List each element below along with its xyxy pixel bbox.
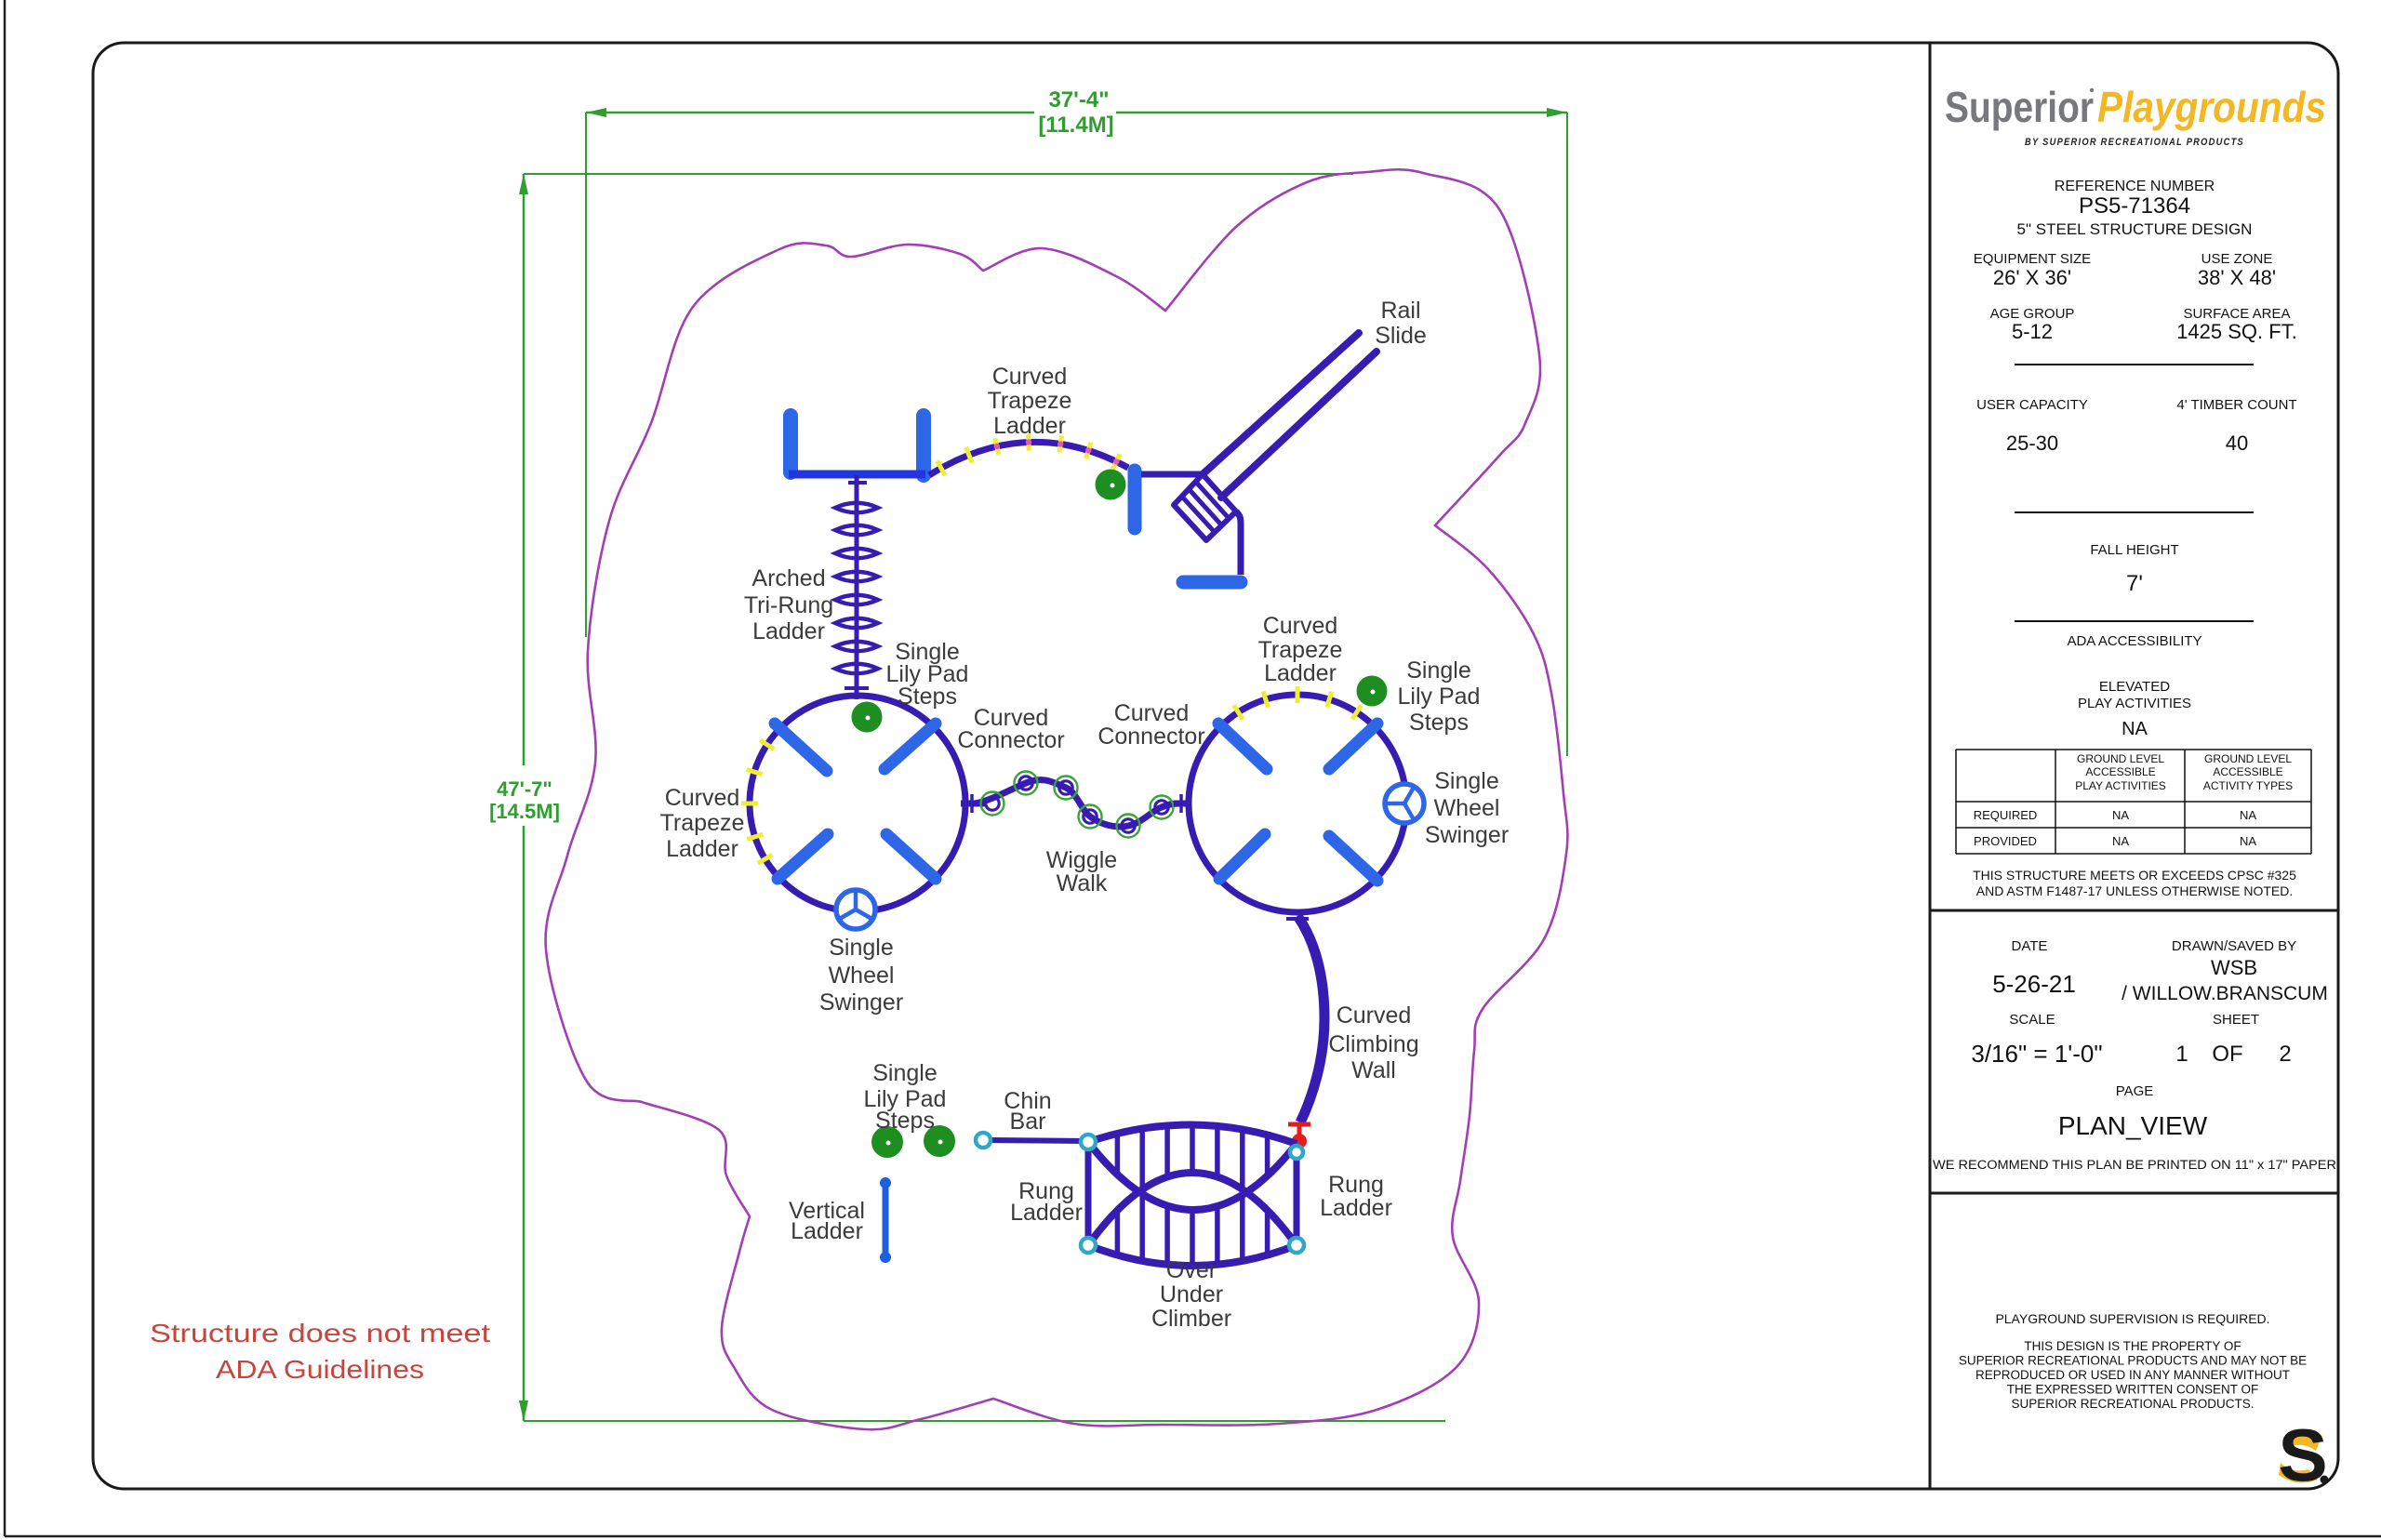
svg-text:Curved: Curved <box>992 364 1068 390</box>
post capsule P3 <box>1128 471 1142 528</box>
svg-text:5" STEEL STRUCTURE DESIGN: 5" STEEL STRUCTURE DESIGN <box>2017 220 2253 238</box>
timber count heading <box>2176 397 2296 413</box>
separator rule 2 <box>2015 511 2254 513</box>
fall height value <box>2126 571 2143 596</box>
svg-text:Ladder: Ladder <box>1010 1200 1083 1226</box>
dimension text 47'-7" <box>497 777 552 801</box>
svg-text:Climbing: Climbing <box>1328 1031 1418 1057</box>
svg-text:PLAY ACTIVITIES: PLAY ACTIVITIES <box>2075 779 2166 792</box>
curved climbing wall <box>1297 916 1324 1122</box>
svg-text:Ladder: Ladder <box>1264 660 1337 686</box>
svg-text:[14.5M]: [14.5M] <box>489 800 560 823</box>
svg-text:GROUND LEVEL: GROUND LEVEL <box>2204 752 2292 765</box>
post capsule P1 <box>783 416 798 472</box>
sheet heading <box>2213 1012 2259 1028</box>
svg-text:Climber: Climber <box>1151 1306 1231 1332</box>
right circle wiggle stub <box>1174 794 1191 813</box>
svg-text:Wheel: Wheel <box>1434 795 1500 821</box>
overhead rail <box>789 471 925 479</box>
svg-text:Trapeze: Trapeze <box>1258 637 1343 663</box>
svg-text:Steps: Steps <box>875 1108 935 1134</box>
svg-text:Ladder: Ladder <box>791 1218 863 1244</box>
svg-text:Wiggle: Wiggle <box>1046 847 1117 873</box>
svg-text:Ladder: Ladder <box>993 413 1066 439</box>
page heading <box>2116 1083 2154 1099</box>
equipment size heading <box>1974 251 2091 267</box>
slide deck connector line <box>1141 471 1203 478</box>
red anchor pin <box>1288 1124 1310 1148</box>
svg-text:NA: NA <box>2112 808 2129 822</box>
equipment size value <box>1993 266 2071 289</box>
svg-text:SUPERIOR RECREATIONAL PRODUCTS: SUPERIOR RECREATIONAL PRODUCTS. <box>2011 1397 2254 1411</box>
svg-text:Curved: Curved <box>1337 1002 1412 1029</box>
curved trapeze ladder yellow ticks <box>938 434 1121 476</box>
svg-text:USER CAPACITY: USER CAPACITY <box>1976 397 2088 413</box>
print recommendation <box>1933 1158 2336 1172</box>
svg-text:Swinger: Swinger <box>1425 822 1509 848</box>
svg-text:SCALE: SCALE <box>2009 1012 2055 1028</box>
use zone top extension line <box>524 173 1353 175</box>
vertical ladder <box>880 1177 891 1263</box>
svg-text:Steps: Steps <box>1409 710 1469 736</box>
chin bar <box>991 1140 1088 1141</box>
svg-text:Swinger: Swinger <box>819 989 903 1016</box>
logo byline <box>2025 137 2244 148</box>
bottom lily pad step 1 <box>871 1126 903 1158</box>
user capacity heading <box>1976 397 2088 413</box>
svg-text:Wall: Wall <box>1351 1057 1396 1083</box>
dimension text [11.4M] <box>1038 113 1113 138</box>
svg-text:Bar: Bar <box>1010 1109 1046 1135</box>
svg-text:Wheel: Wheel <box>829 962 895 989</box>
timber count value <box>2226 431 2248 455</box>
left circle wiggle stub <box>961 794 986 813</box>
label curved climbing wall <box>1328 1002 1418 1083</box>
svg-text:SUPERIOR RECREATIONAL PRODUCTS: SUPERIOR RECREATIONAL PRODUCTS AND MAY N… <box>1959 1354 2307 1368</box>
title block divider 1 <box>1930 909 2338 912</box>
svg-text:Arched: Arched <box>752 565 825 591</box>
wiggle walk wavy beam <box>975 780 1183 827</box>
label curved trapeze ladder left <box>660 785 745 862</box>
svg-text:38' X 48': 38' X 48' <box>2198 266 2276 289</box>
svg-text:PS5-71364: PS5-71364 <box>2079 193 2190 219</box>
elevated NA value <box>2122 719 2148 739</box>
svg-text:S: S <box>2278 1414 2327 1496</box>
elevated play activities <box>2078 679 2191 711</box>
bottom lily pad step 2 <box>924 1125 955 1157</box>
page value <box>2058 1111 2208 1140</box>
rail slide end capsule <box>1183 576 1241 590</box>
teal connector rings <box>976 1133 1304 1253</box>
svg-text:Superior: Superior <box>1945 83 2094 131</box>
supervision note <box>1995 1311 2269 1326</box>
sheet value <box>2175 1042 2291 1067</box>
svg-text:/ WILLOW.BRANSCUM: / WILLOW.BRANSCUM <box>2122 983 2328 1004</box>
svg-text:PLAY ACTIVITIES: PLAY ACTIVITIES <box>2078 696 2191 711</box>
label single wheel swinger bottom <box>819 935 903 1016</box>
svg-text:40: 40 <box>2226 431 2248 455</box>
svg-text:Connector: Connector <box>957 727 1064 753</box>
label single lily pad steps bottom <box>864 1060 947 1134</box>
reference number value <box>2079 193 2190 219</box>
svg-text:USE ZONE: USE ZONE <box>2201 251 2273 267</box>
svg-text:BY SUPERIOR RECREATIONAL PRODU: BY SUPERIOR RECREATIONAL PRODUCTS <box>2025 137 2244 148</box>
svg-text:EQUIPMENT SIZE: EQUIPMENT SIZE <box>1974 251 2091 267</box>
svg-text:7': 7' <box>2126 571 2143 596</box>
svg-text:Ladder: Ladder <box>752 618 825 644</box>
svg-text:26' X 36': 26' X 36' <box>1993 266 2071 289</box>
svg-text:ACTIVITY TYPES: ACTIVITY TYPES <box>2203 779 2293 792</box>
svg-text:DATE: DATE <box>2012 938 2048 954</box>
label chin bar <box>1004 1088 1051 1135</box>
svg-text:REQUIRED: REQUIRED <box>1974 808 2038 822</box>
svg-text:Single: Single <box>829 935 894 961</box>
drawn by name <box>2122 983 2328 1004</box>
right circle yellow ladder ticks <box>1217 686 1377 730</box>
svg-text:Rung: Rung <box>1328 1172 1384 1198</box>
svg-text:FALL HEIGHT: FALL HEIGHT <box>2090 542 2178 558</box>
svg-text:ADA ACCESSIBILITY: ADA ACCESSIBILITY <box>2067 633 2201 649</box>
label single lily pad steps left <box>886 639 969 710</box>
svg-text:Single: Single <box>1406 657 1471 684</box>
age group heading <box>1990 306 2075 322</box>
drawn by heading <box>2172 938 2296 954</box>
svg-text:3/16" = 1'-0": 3/16" = 1'-0" <box>1971 1040 2102 1068</box>
rung ladder left side <box>1085 1142 1092 1245</box>
label vertical ladder <box>789 1198 865 1244</box>
svg-text:ELEVATED: ELEVATED <box>2099 679 2170 695</box>
svg-text:1425 SQ. FT.: 1425 SQ. FT. <box>2176 320 2297 343</box>
use zone outline purple blob <box>546 169 1568 1429</box>
svg-text:NA: NA <box>2122 719 2148 739</box>
right circle climber bars <box>1218 724 1377 881</box>
surface area heading <box>2183 306 2290 322</box>
label rung ladder right <box>1320 1172 1392 1221</box>
svg-text:THIS DESIGN IS THE PROPERTY OF: THIS DESIGN IS THE PROPERTY OF <box>2024 1339 2241 1353</box>
dimension text [14.5M] <box>489 800 560 823</box>
dimension line 47ft-7in vertical <box>519 174 528 1421</box>
svg-text:ACCESSIBLE: ACCESSIBLE <box>2085 765 2155 778</box>
ADA note text <box>150 1319 490 1384</box>
svg-text:Trapeze: Trapeze <box>660 810 745 836</box>
single wheel swinger bottom <box>836 890 875 929</box>
structure design line <box>2017 220 2253 238</box>
user capacity value <box>2006 431 2058 455</box>
extension line right vertical x1685 <box>1566 113 1568 756</box>
rung ladder right side <box>1294 1144 1300 1245</box>
svg-text:47'-7": 47'-7" <box>497 777 552 801</box>
svg-text:WE RECOMMEND THIS PLAN BE PRIN: WE RECOMMEND THIS PLAN BE PRINTED ON 11"… <box>1933 1158 2336 1172</box>
label single lily pad steps right <box>1398 657 1481 736</box>
scale heading <box>2009 1012 2055 1028</box>
left circle yellow ladder ticks <box>741 740 774 864</box>
tri-rung ladder bottom tick <box>845 686 869 690</box>
svg-text:Single: Single <box>1434 768 1499 794</box>
rail slide support drop <box>1236 511 1241 575</box>
svg-text:ACCESSIBLE: ACCESSIBLE <box>2213 765 2282 778</box>
tri-rung ladder rungs <box>835 503 878 674</box>
separator rule 3 <box>2015 620 2254 622</box>
svg-text:Tri-Rung: Tri-Rung <box>744 592 833 618</box>
dimension text 37'-4" <box>1048 87 1109 113</box>
single wheel swinger right <box>1385 784 1424 823</box>
svg-text:Steps: Steps <box>898 684 957 710</box>
title block separator <box>1929 43 1932 1489</box>
outer page border left edge <box>4 0 7 1536</box>
svg-text:Rail: Rail <box>1380 298 1420 324</box>
svg-text:GROUND LEVEL: GROUND LEVEL <box>2077 752 2164 765</box>
svg-text:PROVIDED: PROVIDED <box>1974 834 2037 848</box>
title block divider 2 <box>1930 1192 2338 1195</box>
svg-text:REFERENCE NUMBER: REFERENCE NUMBER <box>2055 179 2215 194</box>
svg-text:Trapeze: Trapeze <box>988 388 1072 414</box>
label curved trapeze ladder top <box>988 364 1072 439</box>
rail slide upper rail <box>1203 333 1359 474</box>
svg-text:2: 2 <box>2279 1042 2291 1067</box>
svg-text:Over: Over <box>1166 1257 1217 1283</box>
rail slide lower rail <box>1221 352 1377 498</box>
S corner logo <box>2278 1414 2328 1496</box>
label rung ladder left <box>1010 1178 1083 1226</box>
post capsule P2 <box>916 416 931 475</box>
lily pad step at slide deck <box>1096 470 1126 500</box>
svg-text:Ladder: Ladder <box>666 836 738 862</box>
label arched tri-rung ladder <box>744 565 833 644</box>
left play circle ring <box>750 696 965 911</box>
label curved connector right <box>1097 700 1204 750</box>
ada accessibility heading <box>2067 633 2201 649</box>
svg-text:Playgrounds: Playgrounds <box>2097 83 2326 131</box>
svg-text:Curved: Curved <box>1114 700 1190 726</box>
svg-text:DRAWN/SAVED BY: DRAWN/SAVED BY <box>2172 938 2296 954</box>
property notice <box>1959 1339 2307 1411</box>
surface area value <box>2176 320 2297 343</box>
svg-text:NA: NA <box>2240 808 2256 822</box>
right circle lily pad step <box>1357 676 1388 707</box>
extension line left vertical x630 <box>585 113 587 637</box>
svg-text:Connector: Connector <box>1097 724 1204 750</box>
svg-text:5-12: 5-12 <box>2012 320 2053 343</box>
svg-text:OF: OF <box>2212 1042 2242 1067</box>
svg-text:NA: NA <box>2112 834 2129 848</box>
arched tri-rung ladder rail <box>855 475 859 699</box>
fall height heading <box>2090 542 2178 558</box>
svg-text:Under: Under <box>1160 1281 1223 1308</box>
svg-text:SHEET: SHEET <box>2213 1012 2259 1028</box>
svg-text:Ladder: Ladder <box>1320 1195 1392 1221</box>
svg-text:Curved: Curved <box>1263 613 1338 639</box>
svg-text:THIS STRUCTURE MEETS OR EXCEED: THIS STRUCTURE MEETS OR EXCEEDS CPSC #32… <box>1973 868 2296 883</box>
label rail slide <box>1375 298 1427 349</box>
svg-text:PLAN_VIEW: PLAN_VIEW <box>2058 1111 2208 1140</box>
svg-text:Lily Pad: Lily Pad <box>1398 684 1481 710</box>
date value <box>1992 970 2076 998</box>
svg-text:AND ASTM F1487-17 UNLESS OTHER: AND ASTM F1487-17 UNLESS OTHERWISE NOTED… <box>1976 883 2294 898</box>
svg-text:Structure does not meet: Structure does not meet <box>150 1319 490 1347</box>
svg-text:37'-4": 37'-4" <box>1048 87 1109 113</box>
svg-text:REPRODUCED OR USED IN ANY MANN: REPRODUCED OR USED IN ANY MANNER WITHOUT <box>1975 1368 2290 1382</box>
curved trapeze ladder arc <box>929 442 1128 475</box>
CPSC note <box>1973 868 2296 898</box>
rail slide entry frame <box>1174 474 1236 540</box>
svg-text:1: 1 <box>2175 1042 2188 1067</box>
svg-text:THE EXPRESSED WRITTEN CONSENT: THE EXPRESSED WRITTEN CONSENT OF <box>2007 1383 2259 1397</box>
svg-text:Curved: Curved <box>665 785 740 811</box>
svg-text:Slide: Slide <box>1375 323 1427 349</box>
svg-text:Single: Single <box>872 1060 938 1086</box>
label curved connector left <box>957 705 1064 753</box>
left circle lily pad step <box>852 702 883 733</box>
svg-text:WSB: WSB <box>2211 956 2257 979</box>
wiggle walk rings <box>981 772 1174 838</box>
label single wheel swinger right <box>1425 768 1509 848</box>
reference number heading <box>2055 179 2215 194</box>
svg-text:5-26-21: 5-26-21 <box>1992 970 2076 998</box>
svg-text:ADA Guidelines: ADA Guidelines <box>216 1355 424 1384</box>
separator rule 1 <box>2015 364 2254 365</box>
svg-text:PAGE: PAGE <box>2116 1083 2154 1099</box>
tri-rung ladder top tick <box>848 481 867 485</box>
right play circle ring <box>1189 695 1406 912</box>
left circle climber bars <box>775 724 936 879</box>
date heading <box>2012 938 2048 954</box>
ADA accessibility table <box>1956 750 2311 854</box>
svg-text:25-30: 25-30 <box>2006 431 2058 455</box>
svg-text:NA: NA <box>2240 834 2256 848</box>
dimension line 37ft-4in horizontal <box>586 108 1567 117</box>
outer page border bottom edge <box>5 1535 2381 1538</box>
label over under climber <box>1151 1257 1231 1332</box>
age group value <box>2012 320 2053 343</box>
svg-text:4' TIMBER COUNT: 4' TIMBER COUNT <box>2176 397 2296 413</box>
label curved trapeze ladder right <box>1258 613 1343 686</box>
use zone heading <box>2201 251 2273 267</box>
svg-text:Walk: Walk <box>1057 870 1108 896</box>
use zone bottom extension line <box>524 1420 1445 1422</box>
right circle bottom tick <box>1286 917 1309 921</box>
scale value <box>1971 1040 2102 1068</box>
svg-text:[11.4M]: [11.4M] <box>1038 113 1113 138</box>
logo SuperiorPlaygrounds <box>1945 83 2326 131</box>
drawn by WSB <box>2211 956 2257 979</box>
over under climber bands <box>1088 1124 1297 1266</box>
label wiggle walk <box>1046 847 1117 896</box>
use zone value <box>2198 266 2276 289</box>
svg-text:PLAYGROUND SUPERVISION IS REQU: PLAYGROUND SUPERVISION IS REQUIRED. <box>1995 1311 2269 1326</box>
